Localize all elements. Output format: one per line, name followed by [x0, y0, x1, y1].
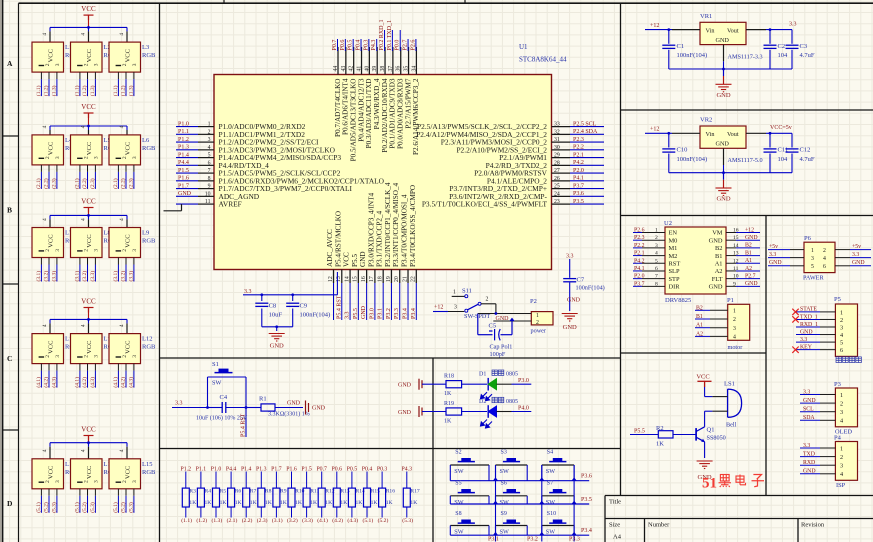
MCU U1 designator [519, 43, 567, 64]
capacitor C3 4.7uF [786, 30, 815, 69]
svg-text:RGB: RGB [142, 344, 156, 351]
svg-text:4.7uF: 4.7uF [800, 156, 815, 163]
U2 left pin 8 DIR [633, 281, 680, 290]
svg-text:P0.6: P0.6 [340, 40, 346, 51]
svg-text:P3.2: P3.2 [386, 308, 392, 319]
svg-text:VCC: VCC [81, 298, 96, 306]
svg-text:4: 4 [81, 324, 87, 327]
svg-text:3: 3 [132, 480, 138, 483]
switch S7 SW [542, 481, 574, 506]
svg-text:13: 13 [733, 251, 739, 257]
power VCC group 3 [81, 198, 96, 216]
resistor R14 1K net P0.5 [347, 466, 365, 524]
title block [605, 496, 873, 542]
svg-text:2: 2 [486, 297, 489, 303]
svg-text:P5: P5 [834, 296, 841, 303]
svg-text:(5.3): (5.3) [402, 517, 413, 524]
svg-text:2: 2 [84, 355, 90, 358]
svg-text:VCC: VCC [86, 49, 93, 62]
svg-text:GND: GND [716, 141, 730, 148]
svg-text:C3: C3 [800, 43, 808, 50]
output net 3.3 (VR1) [746, 21, 797, 31]
U1 right pin 25 P3.7 [449, 183, 604, 193]
svg-text:P0.3: P0.3 [363, 40, 369, 51]
resistor R6 1K net P4.4 [226, 466, 242, 524]
svg-text:VCC: VCC [81, 103, 96, 111]
U2 left pin 6 SLP [633, 266, 680, 275]
svg-text:P4.4: P4.4 [226, 466, 237, 472]
U1 right pin 33 P2.5 [417, 121, 604, 131]
svg-text:(3.2): (3.2) [120, 271, 127, 282]
svg-text:P1.1: P1.1 [196, 466, 207, 472]
svg-text:VCC: VCC [81, 198, 96, 206]
svg-text:P3.7: P3.7 [573, 183, 584, 189]
svg-text:43: 43 [341, 66, 347, 72]
wires L8 pins 1-3 with net labels [73, 258, 96, 282]
U1 top pin 34 P2.6 [410, 39, 420, 155]
svg-text:P3.5/T1/T0CLKO/ECI_4/SS_4/PWMF: P3.5/T1/T0CLKO/ECI_4/SS_4/PWMFLT [422, 200, 548, 209]
U1 left pin 3 P1.2 [176, 137, 319, 147]
U1 bottom pin 22 P3.4 [409, 185, 417, 320]
net label P5.4 RST (S1) [241, 413, 247, 437]
svg-text:P3.1: P3.1 [378, 308, 384, 319]
svg-text:C7: C7 [577, 277, 585, 284]
driver U2 designator [664, 220, 672, 227]
svg-text:VCC: VCC [48, 466, 55, 479]
capacitor C12 4.7uF [786, 133, 815, 172]
U2 left pin 5 RST [633, 258, 680, 267]
svg-text:GND: GND [359, 251, 367, 267]
wires L1 pins 1-3 with net labels [35, 72, 58, 96]
RGB LED L14 [71, 443, 118, 489]
svg-text:40: 40 [364, 66, 370, 72]
capacitor C5 Cap Pol1 [478, 314, 515, 358]
resistor R9 1K net P1.7 [271, 466, 287, 524]
svg-text:P2: P2 [530, 298, 537, 305]
RGB LED L6 [109, 125, 156, 165]
svg-text:S8: S8 [455, 511, 461, 517]
svg-text:(5.1): (5.1) [73, 502, 80, 513]
U2 left pin 7 STP [633, 274, 680, 283]
svg-text:P1.3: P1.3 [256, 466, 267, 472]
ground GND (Q1) [697, 461, 713, 481]
svg-text:3: 3 [733, 326, 736, 332]
svg-text:4: 4 [733, 335, 736, 341]
svg-text:1K: 1K [386, 500, 393, 506]
resistor R5 1K net P1.0 [211, 466, 227, 524]
svg-text:1K: 1K [340, 500, 347, 506]
resistor R4 1K net P1.1 [196, 466, 212, 524]
U1 right pin 24 P3.6 [449, 191, 604, 201]
svg-text:(2.2): (2.2) [242, 517, 253, 524]
svg-text:P0.2 RXD_1: P0.2 RXD_1 [379, 19, 385, 50]
resistor R2 1K [630, 425, 696, 448]
svg-text:2: 2 [122, 63, 128, 66]
U2 right pin 16 VM [712, 227, 760, 236]
U1 right pin 27 P2.0 [474, 168, 604, 178]
svg-text:PAWER: PAWER [803, 275, 824, 282]
svg-text:P5.5: P5.5 [353, 308, 359, 319]
svg-text:3: 3 [655, 243, 658, 249]
svg-text:104: 104 [778, 156, 789, 163]
U1 top pin 44 P0.7 [332, 39, 342, 137]
svg-text:12: 12 [733, 258, 739, 264]
U1 left pin 9 P1.7 [176, 183, 353, 193]
svg-text:P0.2/AD2/ADC10/RXD4: P0.2/AD2/ADC10/RXD4 [381, 78, 389, 152]
svg-text:RST: RST [669, 260, 681, 267]
svg-text:4: 4 [119, 449, 125, 452]
svg-text:3: 3 [94, 480, 100, 483]
resistor R8 1K net P1.3 [256, 466, 272, 524]
svg-text:(1.2): (1.2) [196, 517, 207, 524]
svg-text:1K: 1K [656, 441, 664, 448]
svg-text:16: 16 [733, 228, 739, 234]
svg-text:11: 11 [205, 199, 211, 205]
U1 left pin 8 P1.6 [176, 176, 385, 186]
svg-text:P3.5: P3.5 [573, 199, 584, 205]
svg-text:A1: A1 [715, 260, 723, 267]
svg-text:4: 4 [655, 251, 658, 257]
svg-text:35: 35 [404, 66, 410, 72]
zone letter B [7, 206, 12, 215]
svg-text:2: 2 [45, 480, 51, 483]
RGB LED L5 [71, 125, 118, 165]
svg-text:GND: GND [178, 191, 192, 197]
svg-text:2: 2 [45, 355, 51, 358]
svg-text:(2.3): (2.3) [50, 178, 57, 189]
svg-text:GND: GND [709, 237, 723, 244]
U2 right pin 15 GND [709, 235, 760, 244]
svg-text:(2.3): (2.3) [257, 517, 268, 524]
net +12 input (VR2) [645, 127, 700, 135]
svg-text:41: 41 [357, 66, 363, 72]
svg-text:(1.1): (1.1) [112, 85, 119, 96]
svg-text:VR2: VR2 [700, 117, 712, 124]
svg-text:AMS1117-3.3: AMS1117-3.3 [728, 53, 763, 60]
label bluetooth module (CJK) [836, 357, 861, 363]
svg-text:C8: C8 [269, 303, 277, 310]
net label P3.1 (keypad col) [488, 537, 499, 542]
svg-text:4: 4 [42, 324, 48, 327]
svg-text:Title: Title [609, 499, 621, 506]
U1 bottom pin 12 ADC_AVCC [326, 229, 334, 320]
svg-text:(5.3): (5.3) [127, 502, 134, 513]
svg-text:P1.1: P1.1 [178, 129, 189, 135]
svg-text:1K: 1K [325, 500, 332, 506]
svg-text:SW: SW [500, 529, 509, 536]
U1 top pin 39 P4.3 [371, 39, 381, 129]
svg-text:D: D [7, 499, 13, 508]
svg-text:Vin: Vin [706, 27, 715, 34]
svg-text:(3.1): (3.1) [272, 517, 283, 524]
svg-text:SW: SW [454, 468, 463, 475]
svg-text:1K: 1K [444, 391, 452, 397]
svg-text:2: 2 [45, 156, 51, 159]
wires L13 pins 1-3 with net labels [35, 489, 58, 513]
svg-text:(4.1): (4.1) [317, 517, 328, 524]
RGB LED L15 [109, 443, 156, 489]
svg-text:100nF(104): 100nF(104) [677, 52, 708, 59]
svg-text:8: 8 [655, 281, 658, 287]
svg-text:9: 9 [733, 281, 736, 287]
svg-text:P3.4/T0/CMPO/MOSI_4: P3.4/T0/CMPO/MOSI_4 [401, 194, 409, 267]
svg-text:1K: 1K [265, 500, 272, 506]
svg-text:C9: C9 [300, 303, 308, 310]
power VCC (buzzer) [696, 374, 711, 397]
svg-text:3: 3 [55, 249, 61, 252]
svg-text:(4.2): (4.2) [43, 377, 50, 388]
svg-text:(5.2): (5.2) [378, 517, 389, 524]
ground GND (reset caps) [269, 334, 285, 350]
svg-text:GND: GND [270, 343, 284, 350]
wire keypad column 2 [541, 465, 543, 542]
svg-text:33: 33 [554, 122, 560, 128]
wire VCC bus group 3 [50, 214, 127, 217]
svg-text:1K: 1K [310, 500, 317, 506]
RGB LED L7 [32, 215, 79, 257]
svg-text:1: 1 [840, 309, 843, 316]
wire to ground [262, 325, 293, 331]
svg-text:P2.1: P2.1 [573, 152, 584, 158]
svg-text:2: 2 [122, 480, 128, 483]
switch S3 SW [496, 450, 528, 481]
svg-text:DIR: DIR [669, 284, 681, 291]
svg-text:3: 3 [55, 156, 61, 159]
ground GND (VR1) [716, 69, 732, 99]
svg-text:10: 10 [733, 274, 739, 280]
svg-text:4: 4 [840, 332, 843, 339]
svg-text:P3.4/T0CLKO/SS_4/CMPO: P3.4/T0CLKO/SS_4/CMPO [409, 185, 417, 267]
svg-text:P2.3: P2.3 [573, 137, 584, 143]
output net VCC=5v (VR2) [746, 125, 792, 135]
svg-text:P2.5 SCL: P2.5 SCL [573, 121, 597, 127]
svg-text:GND: GND [563, 324, 577, 331]
svg-text:4: 4 [42, 33, 48, 36]
svg-text:3: 3 [132, 156, 138, 159]
svg-text:15: 15 [733, 235, 739, 241]
resistor R18 1K [444, 374, 487, 398]
svg-text:P2.0: P2.0 [573, 168, 584, 174]
wires L4 pins 1-3 with net labels [35, 165, 58, 189]
U1 right pin 31 P2.3 [441, 137, 604, 147]
svg-text:C5: C5 [489, 322, 497, 329]
svg-text:GND: GND [716, 92, 730, 99]
svg-text:GND: GND [716, 196, 730, 203]
svg-text:(4.1): (4.1) [112, 377, 119, 388]
wire keypad row P3.5 [450, 497, 592, 504]
svg-text:P3.5: P3.5 [581, 497, 592, 503]
svg-text:3: 3 [132, 249, 138, 252]
svg-text:+12: +12 [650, 23, 659, 29]
svg-text:B2: B2 [715, 245, 722, 252]
svg-text:P3.0: P3.0 [369, 308, 375, 319]
svg-text:P3: P3 [834, 381, 841, 388]
svg-text:P0.6: P0.6 [332, 466, 343, 472]
svg-text:(3.3): (3.3) [89, 271, 96, 282]
svg-text:(5.3): (5.3) [50, 502, 57, 513]
connector P6 PAWER [768, 235, 871, 282]
svg-text:motor: motor [728, 344, 743, 351]
svg-text:34: 34 [411, 66, 417, 72]
wire keypad column 1 [495, 465, 497, 542]
svg-text:S10: S10 [547, 511, 556, 517]
U1 left pin 10 ADC_AGND [176, 191, 260, 201]
power VCC group 5 [81, 426, 96, 443]
svg-text:28: 28 [554, 160, 560, 166]
svg-text:2: 2 [45, 249, 51, 252]
svg-text:R18: R18 [444, 374, 454, 380]
svg-text:D2: D2 [479, 399, 486, 405]
svg-text:4: 4 [81, 125, 87, 128]
wires L7 pins 1-3 with net labels [35, 258, 58, 282]
svg-text:2: 2 [208, 129, 211, 135]
RGB LED L2 [71, 27, 118, 72]
resistor R12 1K net P0.7 [316, 466, 334, 524]
ground GND (R18) [398, 379, 446, 390]
svg-text:VR1: VR1 [700, 13, 712, 20]
no-connect X P5 pin2 [792, 316, 798, 322]
svg-text:Vout: Vout [727, 131, 739, 138]
svg-text:C12: C12 [800, 147, 811, 154]
svg-text:4: 4 [42, 449, 48, 452]
svg-text:P3.4: P3.4 [581, 528, 592, 534]
wire keypad column 3 [573, 465, 575, 542]
svg-text:VCC: VCC [48, 341, 55, 354]
svg-text:3: 3 [840, 324, 843, 331]
switch S6 SW [496, 481, 528, 506]
svg-text:4: 4 [208, 145, 211, 151]
svg-text:RGB: RGB [142, 469, 156, 476]
svg-text:P4.3: P4.3 [402, 466, 413, 472]
svg-text:1K: 1K [295, 500, 302, 506]
svg-text:0805: 0805 [506, 399, 518, 405]
svg-text:2: 2 [84, 480, 90, 483]
U2 part name DRV8825 [665, 297, 691, 304]
svg-text:A2: A2 [715, 268, 723, 275]
svg-text:1: 1 [655, 228, 658, 234]
svg-text:+12: +12 [434, 305, 443, 311]
U1 right pin 28 P4.2 [486, 160, 604, 170]
U1 top pin 41 P0.4 [356, 39, 366, 142]
svg-text:P6: P6 [804, 235, 812, 242]
svg-text:VCC: VCC [125, 142, 132, 155]
svg-text:5: 5 [655, 258, 658, 264]
U1 bottom pin 19 P3.2 [384, 182, 392, 320]
svg-text:VCC: VCC [86, 341, 93, 354]
svg-text:P4.3/WR/RXD_4: P4.3/WR/RXD_4 [373, 78, 381, 129]
svg-text:FLT: FLT [712, 276, 723, 283]
svg-text:104: 104 [778, 52, 789, 59]
svg-text:P4.2: P4.2 [573, 160, 584, 166]
capacitor C11 104 [764, 133, 789, 172]
svg-text:9: 9 [208, 184, 211, 190]
ground GND (R19) [398, 406, 446, 417]
svg-text:P1.7: P1.7 [178, 183, 189, 189]
svg-text:L9: L9 [142, 230, 149, 237]
svg-text:(2.1): (2.1) [73, 178, 80, 189]
U1 top pin 36 P0.0 [395, 30, 405, 149]
U1 bottom pin 14 VCC [343, 252, 351, 320]
RGB LED L9 [109, 215, 156, 257]
svg-text:P2.4 SDA: P2.4 SDA [573, 129, 598, 135]
switch S4 SW [542, 450, 574, 481]
svg-text:(1.2): (1.2) [43, 85, 50, 96]
svg-text:(2.2): (2.2) [81, 178, 88, 189]
resistor R13 1K net P0.6 [332, 466, 350, 524]
wire keypad row P3.4 [450, 528, 592, 535]
connector P3 OLED [800, 381, 858, 436]
svg-text:25: 25 [554, 184, 560, 190]
svg-text:P1.4: P1.4 [178, 152, 189, 158]
resistor R15 1K net P0.4 [362, 466, 380, 524]
svg-text:P1.4: P1.4 [241, 466, 252, 472]
svg-text:4: 4 [119, 324, 125, 327]
svg-text:3.3: 3.3 [789, 21, 797, 27]
svg-text:6: 6 [823, 264, 826, 270]
wire 3.3 rail [243, 272, 337, 296]
svg-text:Cap Pol1: Cap Pol1 [490, 344, 513, 351]
svg-text:1: 1 [840, 392, 843, 399]
wire VCC bus group 4 [50, 318, 127, 321]
svg-text:(2.1): (2.1) [112, 178, 119, 189]
svg-text:3: 3 [208, 137, 211, 143]
zone letter D [7, 499, 13, 508]
svg-text:(5.1): (5.1) [35, 502, 42, 513]
U1 bottom pin 20 P3.3 [392, 183, 400, 320]
svg-text:P0.4/AD4/ADC12/T3: P0.4/AD4/ADC12/T3 [357, 78, 365, 142]
svg-text:R8: R8 [265, 488, 272, 494]
svg-text:SW: SW [546, 529, 555, 536]
svg-text:51: 51 [702, 476, 717, 492]
svg-text:STC8A8K64_44: STC8A8K64_44 [519, 56, 567, 64]
svg-text:1K: 1K [205, 500, 212, 506]
svg-text:1: 1 [536, 313, 539, 319]
svg-text:32: 32 [554, 129, 560, 135]
svg-text:GND: GND [398, 383, 412, 389]
svg-text:VCC: VCC [48, 142, 55, 155]
svg-text:VCC: VCC [125, 49, 132, 62]
svg-text:GND: GND [745, 281, 758, 287]
svg-text:4: 4 [81, 33, 87, 36]
svg-text:P1.6: P1.6 [178, 176, 189, 182]
svg-text:VCC: VCC [86, 142, 93, 155]
U1 top pin 42 P0.5 [348, 39, 358, 161]
svg-text:(3.1): (3.1) [35, 271, 42, 282]
svg-text:3: 3 [94, 63, 100, 66]
svg-text:P0.6/AD6/T4/INT4: P0.6/AD6/T4/INT4 [342, 78, 350, 135]
svg-text:P5.4/RST/MCLKO: P5.4/RST/MCLKO [334, 211, 342, 267]
svg-text:P3.2: P3.2 [527, 537, 538, 542]
svg-text:S3: S3 [501, 450, 507, 456]
svg-text:1: 1 [811, 248, 814, 254]
svg-text:P3.2/INT0/CCP1_4/SCLK_4: P3.2/INT0/CCP1_4/SCLK_4 [384, 182, 392, 267]
svg-text:P1: P1 [727, 297, 734, 304]
wire keypad row P3.6 [450, 474, 592, 481]
svg-text:P0.7: P0.7 [316, 466, 327, 472]
svg-text:VCC: VCC [86, 466, 93, 479]
svg-text:4: 4 [823, 256, 826, 262]
svg-text:5: 5 [208, 153, 211, 159]
svg-text:L12: L12 [142, 336, 152, 343]
wires L6 pins 1-3 with net labels [112, 165, 134, 189]
svg-text:3: 3 [811, 256, 814, 262]
svg-text:R7: R7 [250, 488, 257, 494]
svg-text:3: 3 [55, 63, 61, 66]
svg-text:AMS1117-5.0: AMS1117-5.0 [728, 157, 763, 164]
resistor R1 3.3K [245, 396, 310, 418]
RGB LED L12 [109, 319, 156, 363]
svg-text:2: 2 [45, 63, 51, 66]
